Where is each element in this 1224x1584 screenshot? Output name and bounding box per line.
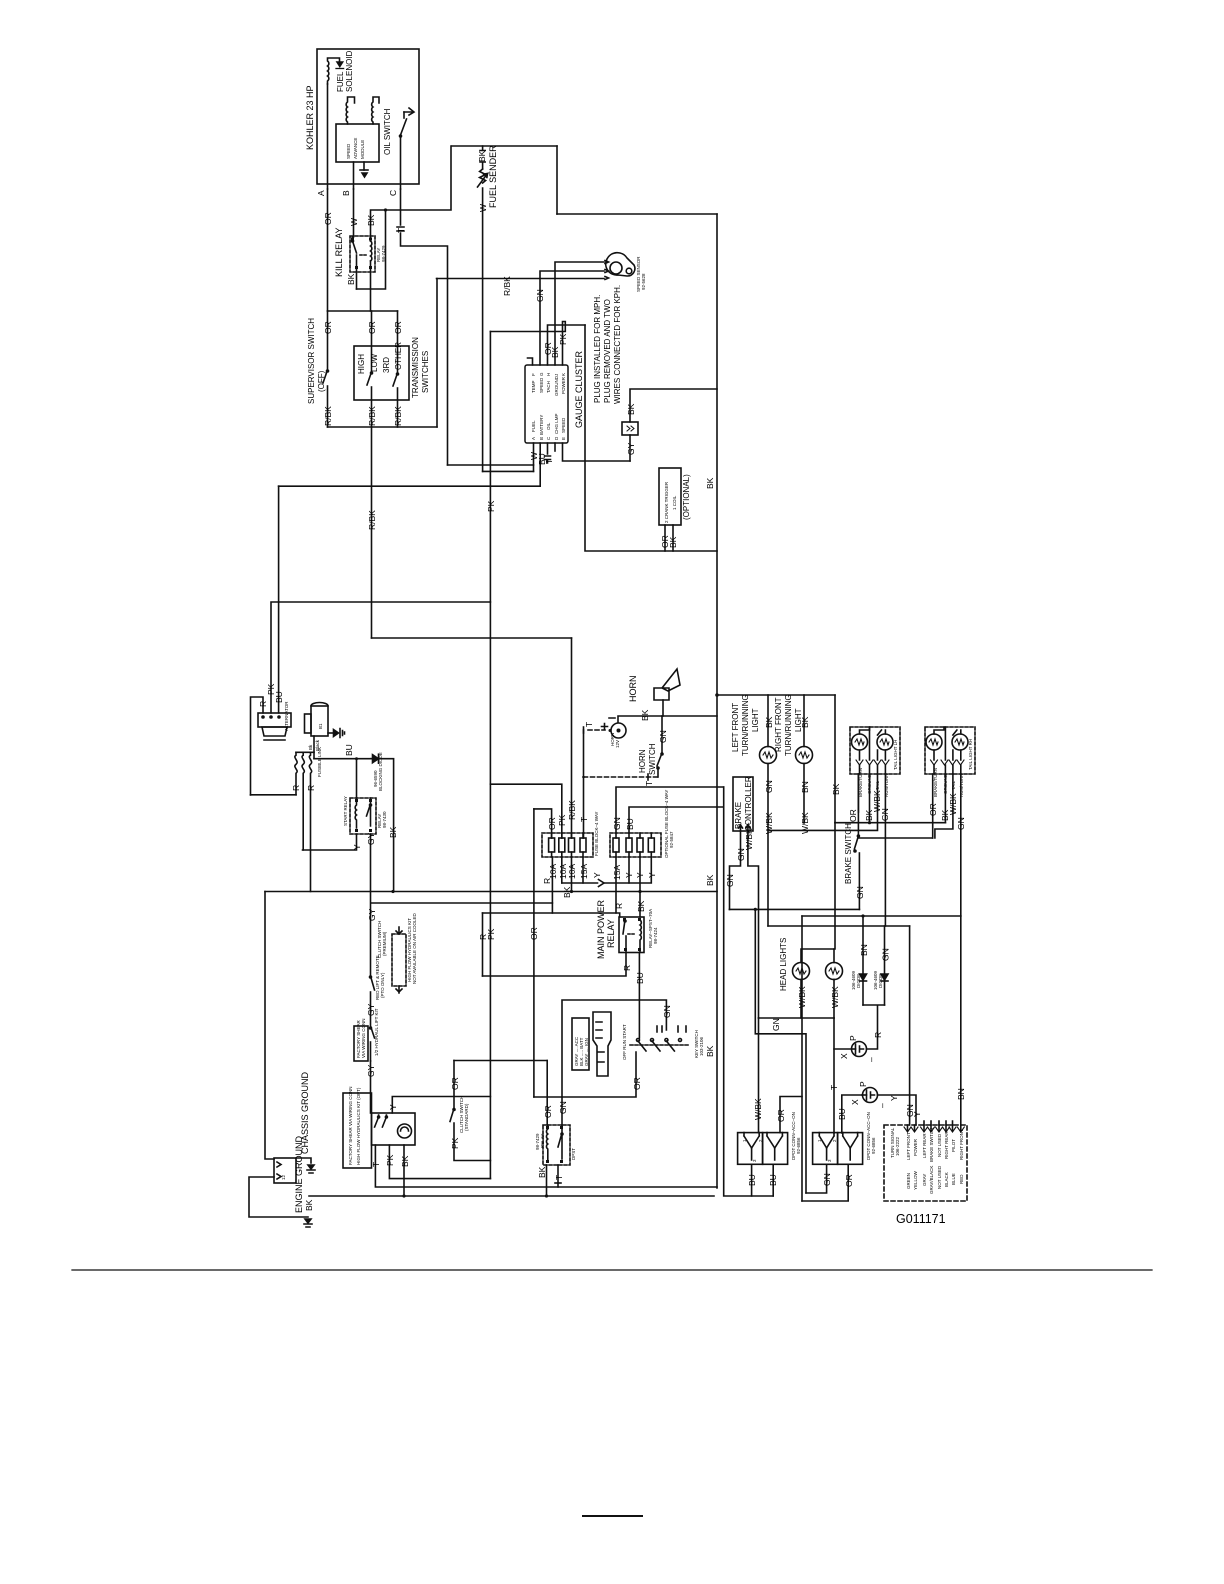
svg-text:OIL SWITCH: OIL SWITCH xyxy=(383,108,392,155)
svg-text:TURN/RUNNING: TURN/RUNNING xyxy=(741,694,750,756)
wire OR run relay drop xyxy=(543,1061,553,1126)
svg-text:–: – xyxy=(877,1103,887,1108)
wire R alternator xyxy=(251,697,269,795)
svg-text:G: G xyxy=(539,372,544,376)
svg-text:BK: BK xyxy=(705,477,715,489)
svg-text:TURN/RUNNING: TURN/RUNNING xyxy=(784,694,793,756)
svg-text:BLACK: BLACK xyxy=(944,1172,949,1187)
svg-text:B: B xyxy=(539,437,544,440)
wire OR drop to supervisor switch xyxy=(323,311,333,370)
wire fusible link top bus xyxy=(296,751,314,753)
wire PK fuse1 feed xyxy=(490,784,567,838)
page rule xyxy=(72,1269,1152,1271)
svg-text:BK: BK xyxy=(640,709,650,721)
svg-text:OTHER: OTHER xyxy=(394,342,403,370)
svg-text:106-2222: 106-2222 xyxy=(895,1136,900,1156)
interlock module box xyxy=(354,1018,368,1061)
svg-text:2 CRANK TRIGGER: 2 CRANK TRIGGER xyxy=(664,481,669,523)
svg-text:HORN: HORN xyxy=(628,676,638,703)
svg-text:FACTORY SHEAR VIA WIRING CONN: FACTORY SHEAR VIA WIRING CONN xyxy=(348,1086,353,1165)
wire BK diode to bus xyxy=(380,759,398,892)
engine block KOHLER 23 HP xyxy=(305,49,419,184)
wire WBK tail RH xyxy=(935,774,958,838)
main power relay K3 xyxy=(596,899,658,959)
svg-text:BRAKE/TURN: BRAKE/TURN xyxy=(933,768,938,797)
wire W from pin B xyxy=(349,189,359,237)
transistor Q1 xyxy=(839,1035,876,1062)
wire BK kill relay top xyxy=(366,146,451,241)
diode BN time delay xyxy=(851,916,869,1005)
wire OR bus horizontal xyxy=(328,310,398,312)
svg-text:LEFT FRONT: LEFT FRONT xyxy=(906,1132,911,1160)
ignition switch module xyxy=(372,1113,416,1145)
wire T fuse1 feed xyxy=(579,777,589,838)
wire fuel solenoid to pin A xyxy=(327,84,329,189)
svg-text:–: – xyxy=(866,1057,876,1062)
svg-text:TEMP: TEMP xyxy=(531,380,536,393)
svg-text:BK: BK xyxy=(831,783,841,795)
engine ground block xyxy=(274,1135,304,1213)
svg-text:SWITCHES: SWITCHES xyxy=(421,351,430,393)
svg-text:DPST: DPST xyxy=(571,1148,576,1160)
start relay K2 xyxy=(343,796,387,834)
svg-text:BK: BK xyxy=(636,900,646,912)
svg-text:FUEL SENDER: FUEL SENDER xyxy=(488,145,498,208)
svg-text:SPEED: SPEED xyxy=(346,143,351,159)
svg-text:R/BK: R/BK xyxy=(323,406,333,426)
svg-text:YELLOW: YELLOW xyxy=(913,1170,918,1190)
svg-text:SPEED: SPEED xyxy=(561,417,566,433)
svg-text:Y: Y xyxy=(889,1095,899,1101)
svg-text:RIGHT REAR: RIGHT REAR xyxy=(944,1131,949,1159)
wire GY PTO chain xyxy=(367,908,377,976)
svg-text:RELAY: RELAY xyxy=(540,1134,545,1148)
wire R/BK riser to speed sensor line xyxy=(436,279,438,428)
svg-text:Y: Y xyxy=(352,844,362,850)
svg-text:W/BK: W/BK xyxy=(753,1098,763,1120)
svg-text:R: R xyxy=(258,701,268,707)
svg-text:Y: Y xyxy=(388,1104,398,1110)
svg-text:R: R xyxy=(614,903,624,909)
svg-text:C: C xyxy=(388,190,398,196)
wire GN brake controller xyxy=(725,831,746,909)
wire GN tail LH long xyxy=(880,774,890,926)
wire GY to ignition box xyxy=(370,1061,372,1113)
wire gauge pin A W xyxy=(448,443,540,471)
tail light LH xyxy=(850,727,900,797)
svg-text:W: W xyxy=(478,204,488,212)
wire BK ignition out xyxy=(400,1145,410,1198)
wire GN connector2 out xyxy=(806,1164,832,1193)
svg-text:ALTERNATOR: ALTERNATOR xyxy=(284,701,289,731)
svg-text:BK: BK xyxy=(400,1155,410,1167)
wire OR tie LH-RH xyxy=(858,837,932,839)
wire BK connector top to bus xyxy=(630,389,717,422)
svg-text:OR: OR xyxy=(367,321,377,334)
svg-text:TAIL LIGHT LH: TAIL LIGHT LH xyxy=(893,740,898,770)
diode D1 xyxy=(371,752,383,791)
clutch thumb switch OR-PK xyxy=(450,1061,490,1161)
wire GN brake to switch xyxy=(729,908,859,910)
svg-text:KOHLER 23 HP: KOHLER 23 HP xyxy=(305,85,315,150)
horn xyxy=(628,669,680,702)
svg-text:HEAD LIGHTS: HEAD LIGHTS xyxy=(779,938,788,991)
svg-text:(STANDARD): (STANDARD) xyxy=(464,1103,469,1131)
wire GN key loop xyxy=(562,1000,672,1097)
wire Y Q2 to trailer xyxy=(878,1095,923,1125)
svg-text:POWER: POWER xyxy=(561,376,566,394)
svg-text:START RELAY: START RELAY xyxy=(343,796,348,826)
right front turn light L2 xyxy=(774,694,813,763)
svg-text:P: P xyxy=(848,1035,858,1041)
svg-text:GN: GN xyxy=(881,948,891,961)
brake controller xyxy=(733,776,753,831)
wire BK fuel sender top xyxy=(452,146,557,162)
svg-text:92-5847: 92-5847 xyxy=(669,831,674,848)
wire gauge pin C T stub xyxy=(544,443,554,464)
svg-text:ADVANCE: ADVANCE xyxy=(353,138,358,159)
wire T fuse link vertical xyxy=(583,776,584,778)
wire BK main bus vertical xyxy=(705,214,717,1188)
svg-text:CHG LMP: CHG LMP xyxy=(554,413,559,434)
wire BK gauge J to sensor xyxy=(550,262,604,365)
transmission switches box xyxy=(354,337,430,400)
node BK bus to lights junction xyxy=(715,693,719,697)
key legend box xyxy=(572,1018,589,1070)
svg-text:T: T xyxy=(554,1175,564,1180)
svg-text:BLUE: BLUE xyxy=(951,1173,956,1185)
svg-text:BK: BK xyxy=(705,874,715,886)
key switch S2 xyxy=(622,1024,704,1060)
wire GN tail RH to BN node xyxy=(956,774,966,916)
svg-text:P: P xyxy=(858,1081,868,1087)
wire BK horn feed xyxy=(618,709,717,722)
svg-text:GN: GN xyxy=(764,780,774,793)
clutch switch premium dashed xyxy=(377,912,417,993)
speed sensor xyxy=(605,253,646,292)
svg-text:DIODE: DIODE xyxy=(878,974,883,988)
wire R relay out xyxy=(483,953,633,977)
svg-text:FUEL: FUEL xyxy=(336,71,345,92)
svg-text:POWER: POWER xyxy=(913,1138,918,1156)
wire GY start relay out xyxy=(366,832,376,914)
wire BK tail LH xyxy=(864,774,874,824)
svg-text:BU: BU xyxy=(274,691,284,703)
wire GN connector feed xyxy=(754,908,806,1193)
wire WBK brake controller xyxy=(744,828,759,1018)
wire X Q1 to T column xyxy=(834,1048,852,1050)
wire OR key switch riser xyxy=(529,809,539,1097)
fusible link 3 xyxy=(306,747,322,892)
wire crank trigger bottom loop xyxy=(585,325,717,551)
svg-text:BK: BK xyxy=(800,716,810,728)
svg-text:B1: B1 xyxy=(318,723,323,729)
svg-text:GY: GY xyxy=(366,832,376,845)
wire OR gauge H xyxy=(543,325,585,365)
wire W fuel sender down xyxy=(478,188,488,471)
wire top feed to BK bus xyxy=(557,213,717,215)
wire BU to start relay and diode xyxy=(314,744,371,760)
fuel sender R-var xyxy=(478,145,499,208)
svg-text:OR: OR xyxy=(844,1174,854,1187)
wire BK right drop from fuel line xyxy=(556,146,558,214)
svg-text:BK: BK xyxy=(304,1199,314,1211)
wire BN right light down xyxy=(800,764,810,835)
svg-text:T: T xyxy=(544,459,554,464)
svg-text:GREEN: GREEN xyxy=(906,1173,911,1189)
svg-text:D: D xyxy=(554,436,559,440)
svg-text:X: X xyxy=(850,1099,860,1105)
connector pair 2 xyxy=(813,1112,876,1164)
svg-text:OR: OR xyxy=(632,1077,642,1090)
svg-text:BU: BU xyxy=(344,744,354,756)
svg-text:GRAY: GRAY xyxy=(922,1174,927,1186)
svg-text:TACH: TACH xyxy=(546,381,551,393)
svg-text:BU: BU xyxy=(768,1174,778,1186)
svg-text:BRAKE SWITCH: BRAKE SWITCH xyxy=(844,823,853,884)
interlock text box xyxy=(343,1086,372,1168)
svg-text:OR: OR xyxy=(450,1077,460,1090)
svg-text:12: 12 xyxy=(281,1174,286,1180)
svg-text:92-6856: 92-6856 xyxy=(871,1137,876,1154)
svg-text:T: T xyxy=(371,1162,381,1167)
wire BU accessory bus xyxy=(724,787,774,1196)
svg-text:92-5628: 92-5628 xyxy=(641,273,646,290)
svg-text:(PREMIUM): (PREMIUM) xyxy=(382,931,387,956)
svg-text:CHASSIS GROUND: CHASSIS GROUND xyxy=(300,1071,310,1154)
wire BU alternator feed xyxy=(274,486,284,713)
wire PK gauge K jog xyxy=(490,322,568,366)
wire GN trailer drop xyxy=(905,926,915,1125)
svg-text:92-6856: 92-6856 xyxy=(796,1137,801,1154)
wire OR fuse1 feed xyxy=(534,809,557,838)
svg-text:BK: BK xyxy=(705,1045,715,1057)
svg-text:GRAY/BLACK: GRAY/BLACK xyxy=(929,1166,934,1194)
wire BU fuse2 feed xyxy=(625,807,724,833)
wire R fuse1 out xyxy=(551,857,553,913)
wire BK kill relay branch down xyxy=(346,208,387,289)
trailer connector xyxy=(884,1121,967,1201)
wire gauge pin B BU xyxy=(279,443,547,486)
svg-text:W: W xyxy=(349,218,359,226)
svg-text:PLUG INSTALLED FOR MPH.: PLUG INSTALLED FOR MPH. xyxy=(593,295,602,403)
svg-text:OR: OR xyxy=(776,1109,786,1122)
wire R riser xyxy=(478,913,488,976)
wire OR connector1 xyxy=(776,1097,802,1133)
wire GN left light down xyxy=(764,764,774,927)
svg-text:LOW: LOW xyxy=(370,353,379,372)
wire R/BK collector horizontal xyxy=(328,426,438,428)
wire BK headlight right feed xyxy=(834,823,835,949)
wire chassis ground riser xyxy=(265,892,274,1160)
svg-text:T: T xyxy=(829,1085,839,1090)
wire OR drop to 3RD switch xyxy=(393,311,403,373)
svg-text:T: T xyxy=(644,781,654,786)
svg-text:OFF RUN START: OFF RUN START xyxy=(622,1024,627,1060)
wire OR crank trigger xyxy=(660,525,670,551)
wire BU connector1 out xyxy=(747,1164,778,1196)
svg-text:LIGHT: LIGHT xyxy=(751,708,760,732)
fusible link 2 xyxy=(302,752,304,850)
svg-text:BK: BK xyxy=(388,826,398,838)
kill relay K1 xyxy=(334,227,386,277)
svg-text:BN: BN xyxy=(800,781,810,793)
run relay K4 xyxy=(535,1125,576,1165)
wire R/BK to fuse horizontal xyxy=(372,637,572,639)
svg-text:BK: BK xyxy=(562,886,572,898)
svg-text:NOT USED: NOT USED xyxy=(937,1165,942,1189)
svg-text:GY: GY xyxy=(626,442,636,455)
svg-text:TRANSMISSION: TRANSMISSION xyxy=(411,337,420,398)
wire GN run relay drop xyxy=(558,1097,568,1125)
oil switch S-oil xyxy=(383,108,414,155)
wire OR key switch out xyxy=(534,1052,642,1097)
inductor L1 speed advance xyxy=(346,97,354,124)
inductor L2 speed advance xyxy=(372,97,379,124)
wire OR tail RH xyxy=(928,774,938,838)
svg-text:OR: OR xyxy=(529,927,539,940)
svg-text:F: F xyxy=(531,373,536,376)
svg-text:103-2106: 103-2106 xyxy=(699,1036,704,1056)
svg-text:BK: BK xyxy=(764,716,774,728)
svg-text:BN: BN xyxy=(956,1088,966,1100)
svg-text:BK: BK xyxy=(477,150,487,162)
wire BN trailer feed xyxy=(802,915,961,917)
ground inside module xyxy=(360,162,368,177)
plug note text xyxy=(593,285,622,404)
wire battery to BU junction xyxy=(308,736,320,759)
svg-text:GN: GN xyxy=(822,1173,832,1186)
svg-text:BK: BK xyxy=(668,536,678,548)
wire fuse2 outputs xyxy=(616,857,651,913)
transmission switch low contact xyxy=(367,372,377,427)
svg-text:R/BK: R/BK xyxy=(502,276,512,296)
svg-text:T: T xyxy=(579,817,589,822)
svg-text:OR: OR xyxy=(323,321,333,334)
node BK fuse drop xyxy=(562,883,573,898)
wire T ignition out xyxy=(371,1145,717,1187)
fuel solenoid coil xyxy=(328,50,355,92)
wire OR connector2 out xyxy=(802,1164,854,1201)
svg-text:R/BK: R/BK xyxy=(567,800,577,820)
ground at starter xyxy=(328,729,345,738)
svg-text:Y: Y xyxy=(592,872,602,878)
wire GN fuse2 feed xyxy=(612,787,724,833)
svg-text:FUEL: FUEL xyxy=(531,420,536,432)
svg-text:(PTO ONLY): (PTO ONLY) xyxy=(380,972,385,998)
svg-text:FUSIBLE LINK: FUSIBLE LINK xyxy=(317,747,322,777)
svg-text:GN: GN xyxy=(855,886,865,899)
horn switch xyxy=(638,743,663,777)
svg-text:A: A xyxy=(531,437,536,440)
fuse block 2 optional xyxy=(610,790,674,858)
wire gauge pin E GY xyxy=(563,443,631,461)
wire T run relay out xyxy=(554,1165,564,1187)
wire BK run relay out xyxy=(537,1165,548,1198)
svg-text:LEFT REAR: LEFT REAR xyxy=(922,1133,927,1158)
svg-text:NOT AVAILABLE ON AIR COOLED: NOT AVAILABLE ON AIR COOLED xyxy=(412,912,417,984)
wire R to alternator loop xyxy=(251,794,297,796)
left front turn light L1 xyxy=(731,694,777,763)
svg-text:BATTERY: BATTERY xyxy=(539,415,544,435)
svg-text:W/BK: W/BK xyxy=(948,793,958,815)
svg-text:SWITCH: SWITCH xyxy=(648,743,657,775)
svg-text:OR: OR xyxy=(543,342,553,355)
wire WBK connector1 xyxy=(753,1018,763,1133)
wire Y start relay out xyxy=(303,834,363,850)
wire WBK tail LH xyxy=(768,774,882,830)
wire BK distribution bus xyxy=(265,891,717,893)
wire horn to BK line xyxy=(662,700,664,716)
wire WBK headlight bottoms xyxy=(759,980,841,1019)
wire R/BK long feed to sensor xyxy=(437,276,605,296)
svg-text:RIGHT FRONT: RIGHT FRONT xyxy=(959,1129,964,1160)
wire GN horn switch xyxy=(658,716,668,753)
wire BU Q2 to connector xyxy=(837,1095,863,1133)
brake switch xyxy=(844,774,865,909)
fuse block 1 xyxy=(542,811,599,857)
svg-text:GN: GN xyxy=(771,1018,781,1031)
connector pair 1 xyxy=(738,1112,801,1164)
svg-text:GN: GN xyxy=(658,730,668,743)
wire BK ground bus xyxy=(304,1196,714,1211)
svg-text:OR: OR xyxy=(543,1105,553,1118)
svg-text:GN: GN xyxy=(956,817,966,830)
interlock switch contact xyxy=(366,1008,379,1077)
svg-text:98-7430: 98-7430 xyxy=(382,811,387,828)
wire connector to gauge E xyxy=(629,435,631,461)
svg-text:3: 3 xyxy=(827,1159,832,1162)
svg-text:WIRES CONNECTED FOR KPH.: WIRES CONNECTED FOR KPH. xyxy=(613,285,622,404)
wire engine ground loop xyxy=(249,1177,312,1227)
wire PK alternator feed xyxy=(266,602,490,713)
speed advance module U1 xyxy=(336,124,379,162)
wire R/BK trunk down page xyxy=(367,427,377,638)
svg-text:3RD: 3RD xyxy=(382,357,391,373)
gauge cluster xyxy=(525,350,584,443)
svg-text:TAIL LIGHT RH: TAIL LIGHT RH xyxy=(968,739,973,770)
fuse ratings block2 xyxy=(612,865,657,880)
fuse ratings block1 xyxy=(542,864,589,884)
svg-text:GN: GN xyxy=(612,817,622,830)
svg-text:MAIN POWER: MAIN POWER xyxy=(596,899,606,959)
transmission switch 3rd contact xyxy=(393,373,403,427)
wire T column xyxy=(829,980,839,1134)
svg-text:3: 3 xyxy=(752,1159,757,1162)
wire OR clutch link xyxy=(454,1060,547,1062)
fusible link 1 xyxy=(291,752,301,795)
svg-text:1/2 HYDRAUL LIFT KIT: 1/2 HYDRAUL LIFT KIT xyxy=(374,1008,379,1056)
wire R diode join xyxy=(863,1005,885,1049)
svg-text:R/BK: R/BK xyxy=(367,510,377,530)
wire BU relay out xyxy=(635,953,645,1039)
svg-text:RIGHT FRONT: RIGHT FRONT xyxy=(774,697,783,752)
svg-text:BRAKE: BRAKE xyxy=(734,802,743,829)
svg-text:BK: BK xyxy=(366,214,376,226)
svg-text:15A: 15A xyxy=(579,864,589,879)
connector GY-BK >> xyxy=(622,403,638,455)
wire OR from pin A xyxy=(323,189,333,311)
svg-text:SUPERVISOR SWITCH: SUPERVISOR SWITCH xyxy=(307,318,316,404)
key silhouette xyxy=(593,1012,611,1076)
svg-text:LEFT FRONT: LEFT FRONT xyxy=(731,703,740,752)
wire GN lights return xyxy=(768,925,910,927)
svg-text:PK: PK xyxy=(486,500,496,512)
svg-text:BU: BU xyxy=(837,1108,847,1120)
footer underline xyxy=(583,1515,642,1517)
svg-text:DIODE: DIODE xyxy=(856,974,861,988)
wire R/BK fuse1 feed xyxy=(567,638,577,838)
